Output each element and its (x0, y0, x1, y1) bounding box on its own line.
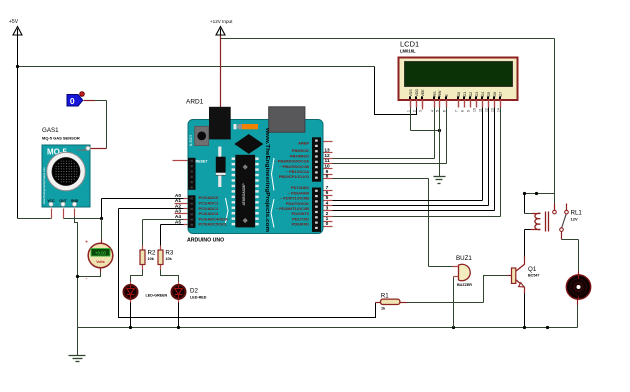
svg-text:PC3/ADC3: PC3/ADC3 (199, 211, 220, 216)
svg-text:12: 12 (484, 108, 488, 112)
svg-text:11: 11 (478, 108, 482, 112)
svg-text:A2: A2 (175, 203, 181, 209)
svg-text:R1: R1 (381, 292, 389, 299)
svg-text:N-31C3: N-31C3 (189, 135, 193, 146)
svg-text:10k: 10k (165, 257, 172, 261)
svg-text:LM016L: LM016L (400, 49, 416, 54)
svg-text:A5: A5 (175, 219, 181, 225)
svg-text:-: - (86, 277, 88, 283)
svg-text:13: 13 (490, 108, 494, 112)
svg-text:14: 14 (496, 108, 500, 112)
svg-text:1: 1 (406, 110, 410, 112)
svg-text:5: 5 (435, 110, 439, 112)
svg-text:R3: R3 (165, 250, 173, 257)
svg-text:0: 0 (326, 221, 329, 227)
svg-text:D5: D5 (487, 92, 491, 97)
svg-text:A1: A1 (175, 198, 181, 204)
svg-text:PB5/SCK: PB5/SCK (292, 148, 309, 153)
svg-text:BUZ1: BUZ1 (456, 255, 472, 262)
svg-text:~ PB2/SS/OC1B: ~ PB2/SS/OC1B (279, 164, 309, 169)
svg-text:PC4/ADC4/SDA: PC4/ADC4/SDA (199, 216, 228, 221)
svg-text:7: 7 (326, 185, 329, 191)
svg-text:www.TheEngineeringProjects.com: www.TheEngineeringProjects.com (43, 168, 46, 204)
svg-text:PC5/ADC5/SCL: PC5/ADC5/SCL (199, 222, 228, 227)
svg-text:0: 0 (70, 96, 75, 106)
svg-text:A0: A0 (175, 193, 181, 199)
svg-text:6: 6 (326, 190, 329, 196)
svg-text:VEE: VEE (421, 89, 425, 97)
svg-text:+0.00: +0.00 (95, 251, 106, 256)
svg-text:ARDUINO UNO: ARDUINO UNO (187, 238, 224, 244)
svg-text:12: 12 (324, 153, 330, 159)
svg-text:VDD: VDD (415, 89, 419, 97)
svg-text:PC2/ADC2: PC2/ADC2 (199, 206, 220, 211)
svg-text:AREF: AREF (298, 140, 309, 145)
svg-text:BC547: BC547 (528, 274, 539, 278)
svg-text:9: 9 (466, 110, 470, 112)
svg-text:4: 4 (430, 110, 434, 112)
svg-text:10k: 10k (148, 257, 155, 261)
svg-text:D3: D3 (475, 92, 479, 97)
svg-text:PC1/ADC1: PC1/ADC1 (199, 201, 220, 206)
svg-text:4: 4 (326, 200, 329, 206)
svg-text:LCD1: LCD1 (400, 40, 419, 49)
svg-text:D2: D2 (190, 288, 198, 295)
svg-text:D1: D1 (463, 92, 467, 97)
svg-text:12V: 12V (571, 217, 578, 222)
svg-text:LED-GREEN: LED-GREEN (146, 294, 168, 298)
svg-text:D4: D4 (481, 92, 485, 97)
svg-text:2: 2 (412, 110, 416, 112)
svg-text:3: 3 (418, 110, 422, 112)
svg-text:D6: D6 (493, 92, 497, 97)
svg-text:~ PB3/MOSI/OC2A: ~ PB3/MOSI/OC2A (274, 159, 309, 164)
svg-text:10: 10 (472, 108, 476, 112)
svg-text:D7: D7 (499, 92, 503, 97)
svg-text:Q1: Q1 (528, 266, 537, 273)
svg-text:BUZZER: BUZZER (457, 283, 472, 287)
svg-text:6: 6 (442, 110, 446, 112)
svg-text:ATMEGA328P: ATMEGA328P (242, 183, 246, 206)
svg-text:+5V: +5V (9, 19, 19, 25)
svg-text:8: 8 (460, 110, 464, 112)
svg-text:LED-RED: LED-RED (190, 296, 207, 300)
svg-text:5: 5 (326, 195, 329, 201)
svg-text:2: 2 (326, 211, 329, 217)
svg-text:R2: R2 (148, 250, 156, 257)
svg-text:PD0/RXD: PD0/RXD (292, 222, 309, 227)
svg-text:13: 13 (324, 148, 330, 154)
svg-text:RL1: RL1 (571, 210, 583, 217)
svg-text:MQ-5 GAS SENSOR: MQ-5 GAS SENSOR (42, 136, 80, 141)
svg-text:GAS1: GAS1 (42, 127, 59, 134)
svg-text:A4: A4 (175, 214, 181, 220)
svg-text:7: 7 (454, 110, 458, 112)
svg-text:Volts: Volts (96, 260, 105, 264)
svg-text:RS: RS (433, 91, 437, 97)
svg-text:D2: D2 (469, 92, 473, 97)
svg-text:ARD1: ARD1 (186, 99, 204, 106)
svg-text:8: 8 (326, 173, 329, 179)
svg-text:10: 10 (324, 164, 330, 170)
svg-text:A3: A3 (175, 209, 181, 215)
svg-text:PB4/MISO: PB4/MISO (290, 153, 309, 158)
svg-text:+: + (85, 240, 88, 246)
svg-text:3: 3 (326, 206, 329, 212)
svg-text:VSS: VSS (409, 89, 413, 97)
svg-text:D0: D0 (457, 92, 461, 97)
svg-text:www.TheEngineeringProjects.com: www.TheEngineeringProjects.com (264, 127, 270, 232)
svg-text:RW: RW (438, 90, 442, 97)
svg-text:PC0/ADC0: PC0/ADC0 (199, 195, 220, 200)
svg-text:RESET: RESET (196, 159, 209, 163)
svg-text:11: 11 (324, 158, 329, 164)
svg-text:PB0/ICP1/CLKO: PB0/ICP1/CLKO (279, 174, 309, 179)
svg-text:1: 1 (326, 216, 329, 222)
svg-text:+12V Input: +12V Input (210, 19, 233, 24)
